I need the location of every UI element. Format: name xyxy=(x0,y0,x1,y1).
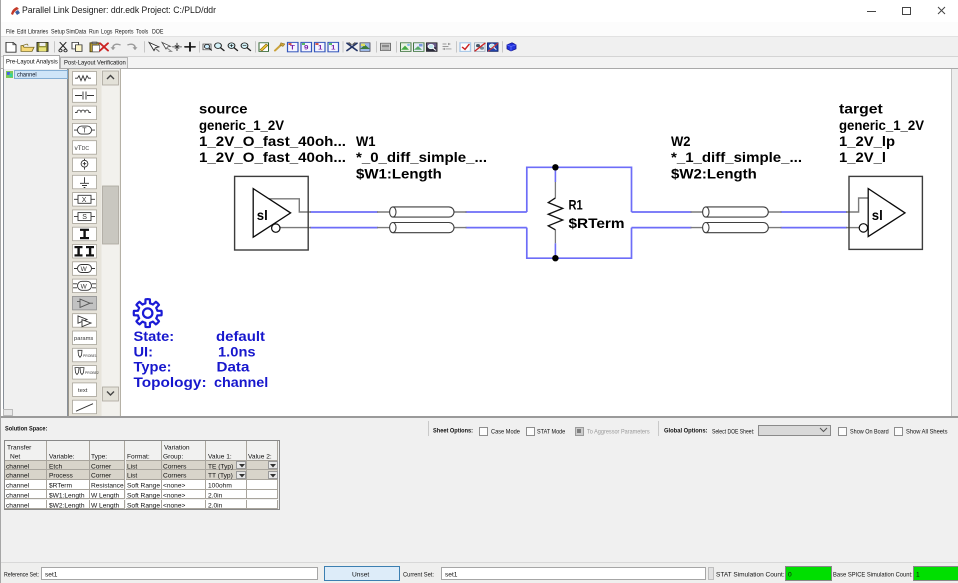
svg-text:sl: sl xyxy=(872,208,883,223)
svg-text:*_0_diff_simple_...: *_0_diff_simple_... xyxy=(356,150,487,165)
svg-text:1_2V_O_fast_40oh...: 1_2V_O_fast_40oh... xyxy=(199,150,346,165)
svg-text:R1: R1 xyxy=(569,198,584,213)
svg-text:1_2V_l: 1_2V_l xyxy=(839,150,886,165)
svg-text:$RTerm: $RTerm xyxy=(569,216,625,231)
svg-text:text: text xyxy=(78,388,88,394)
svg-text:vTDC: vTDC xyxy=(75,145,90,152)
svg-text:target: target xyxy=(839,102,883,117)
svg-text:UI:: UI: xyxy=(134,344,154,359)
svg-text:1.0ns: 1.0ns xyxy=(218,344,256,359)
svg-text:1_2V_lp: 1_2V_lp xyxy=(839,134,895,149)
svg-text:$W1:Length: $W1:Length xyxy=(356,166,442,181)
svg-text:W: W xyxy=(81,266,88,273)
svg-text:T: T xyxy=(82,128,87,135)
svg-text:Type:: Type: xyxy=(134,360,172,375)
svg-text:State:: State: xyxy=(134,329,175,344)
svg-text:channel: channel xyxy=(214,375,268,390)
svg-text:*_1_diff_simple_...: *_1_diff_simple_... xyxy=(671,150,802,165)
svg-text:Topology:: Topology: xyxy=(134,375,207,390)
svg-text:S: S xyxy=(82,214,87,221)
svg-text:sl: sl xyxy=(257,208,268,223)
svg-text:W: W xyxy=(81,283,88,290)
svg-text:default: default xyxy=(216,329,266,344)
svg-text:PROBE1: PROBE1 xyxy=(83,354,97,358)
svg-text:1: 1 xyxy=(318,43,322,51)
svg-text:Data: Data xyxy=(217,360,250,375)
svg-text:PROBE2: PROBE2 xyxy=(85,371,99,375)
svg-text:generic_1_2V: generic_1_2V xyxy=(839,118,924,133)
svg-text:W1: W1 xyxy=(356,134,376,149)
svg-text:$W2:Length: $W2:Length xyxy=(671,166,757,181)
svg-text:1_2V_O_fast_40oh...: 1_2V_O_fast_40oh... xyxy=(199,134,346,149)
svg-text:generic_1_2V: generic_1_2V xyxy=(199,118,284,133)
svg-text:X: X xyxy=(82,197,87,204)
svg-text:W2: W2 xyxy=(671,134,691,149)
svg-text:source: source xyxy=(199,102,248,117)
svg-text:params: params xyxy=(74,336,93,342)
